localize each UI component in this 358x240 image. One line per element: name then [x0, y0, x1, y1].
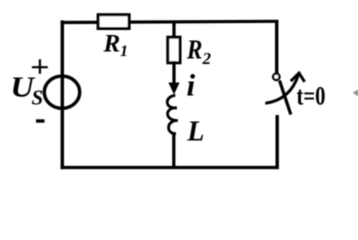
svg-text:R: R [103, 31, 121, 58]
wire top [61, 21, 279, 22]
current arrow i [168, 61, 179, 95]
inductor L [167, 95, 178, 133]
wire left [61, 20, 64, 169]
wire bottom [61, 166, 279, 169]
switch motion arrow [265, 73, 304, 103]
wire R2 top lead [172, 22, 175, 38]
minus sign [36, 119, 45, 122]
wire right upper [275, 20, 278, 74]
svg-text:L: L [186, 116, 204, 147]
resistor R2 [168, 37, 180, 63]
wire right lower [276, 115, 279, 169]
svg-text:t=0: t=0 [297, 81, 326, 111]
svg-text:1: 1 [120, 43, 128, 60]
wire inductor bottom lead [172, 134, 175, 168]
cursor artifact [353, 90, 358, 97]
svg-text:R: R [186, 35, 202, 65]
voltage source US circle [44, 76, 79, 108]
switch blade [280, 81, 291, 115]
svg-text:S: S [32, 86, 44, 110]
svg-text:2: 2 [202, 49, 212, 68]
switch terminal circle [273, 74, 279, 80]
svg-text:i: i [187, 68, 196, 103]
resistor R1 [98, 15, 129, 29]
plus sign [32, 59, 48, 74]
